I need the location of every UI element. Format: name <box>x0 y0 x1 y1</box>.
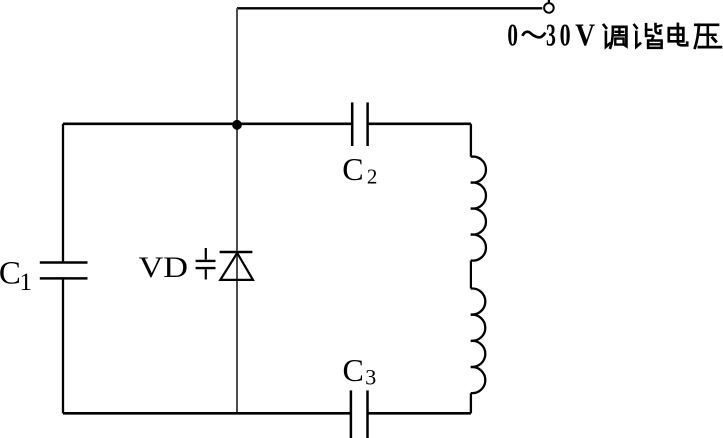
inductor L lower winding (4 turns) <box>471 289 486 394</box>
varactor VD: cathode bar <box>220 251 253 254</box>
label: C1 <box>0 255 32 296</box>
label: 0~30V (tuning voltage value) <box>507 18 595 53</box>
terminal: open circle input, stub above <box>544 0 554 13</box>
svg-text:0: 0 <box>507 18 518 53</box>
inductor L upper winding (4 turns) <box>471 157 486 261</box>
svg-text:V: V <box>575 18 595 53</box>
label: C2 <box>342 151 377 189</box>
svg-text:C: C <box>343 352 364 388</box>
svg-text:3: 3 <box>546 18 556 53</box>
label: 谐 (harmonize) <box>634 24 661 48</box>
capacitor C3 <box>351 390 368 438</box>
wire: inductor centre straight segment <box>470 261 472 289</box>
node: junction dot <box>232 120 242 130</box>
label: 调 (tune) <box>604 25 627 48</box>
svg-text:2: 2 <box>367 165 378 189</box>
varactor VD: anode triangle <box>220 253 253 280</box>
label: 压 (voltage/pressure) <box>695 25 721 48</box>
varactor VD: capacitance symbol plates <box>196 261 216 268</box>
varactor VD: capacitance symbol lower lead <box>205 269 207 279</box>
svg-text:C: C <box>0 255 21 291</box>
svg-text:VD: VD <box>139 251 189 284</box>
capacitor C2 <box>352 102 367 146</box>
wire: bottom horizontal bus <box>63 412 471 415</box>
wire: top horizontal feed to tuning terminal <box>237 7 542 9</box>
label: 电 (electric) <box>669 24 687 45</box>
wire: right vertical lower segment <box>470 393 472 413</box>
capacitor C1 <box>40 263 88 279</box>
label: C3 <box>343 352 377 390</box>
wire: upper horizontal bus <box>63 123 471 126</box>
svg-text:1: 1 <box>20 269 33 296</box>
wire: main vertical (terminal branch down through varactor) <box>236 8 238 250</box>
wire: right vertical upper segment <box>470 124 472 157</box>
svg-text:3: 3 <box>365 365 376 390</box>
svg-text:C: C <box>342 151 363 187</box>
varactor VD: capacitance symbol upper lead <box>205 248 207 260</box>
wire: left vertical branch <box>62 124 64 414</box>
wire: main vertical lower segment below varactor bar <box>236 253 238 413</box>
svg-text:0: 0 <box>560 18 571 53</box>
